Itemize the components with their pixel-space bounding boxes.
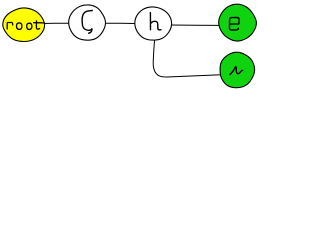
node root circle bbox=[3, 8, 45, 42]
wire h to e bbox=[170, 24, 220, 26]
wire root to s bbox=[42, 22, 70, 24]
label e bbox=[230, 18, 240, 31]
node s circle bbox=[69, 5, 106, 40]
node r circle bbox=[220, 52, 255, 88]
label h bbox=[150, 13, 161, 30]
wire h down to r bbox=[153, 41, 221, 78]
node e circle bbox=[219, 4, 257, 41]
label root bbox=[7, 21, 44, 30]
label s bbox=[82, 11, 92, 34]
label r bbox=[230, 67, 243, 75]
wire s to h bbox=[104, 22, 136, 24]
node h circle bbox=[135, 7, 172, 40]
